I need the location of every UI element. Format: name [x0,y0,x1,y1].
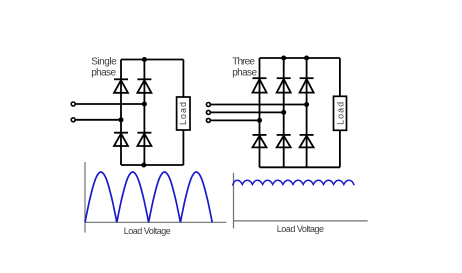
diode D5 [253,77,267,79]
axis left graph x-axis [85,221,226,223]
wire three-phase bottom rail [260,166,340,168]
terminal three-phase input C [206,118,210,122]
wire single-phase top rail [121,59,183,61]
junction single-phase top [142,57,147,62]
wire single-phase AC input line 2 [76,119,121,121]
junction single-phase right mid [142,102,147,107]
svg-text:Load: Load [178,102,188,125]
svg-text:Load Voltage: Load Voltage [277,224,324,234]
diode D6 [277,77,291,79]
wire three-phase leg 3 [306,58,308,167]
wire single-phase AC input line 1 [76,103,145,105]
wire single-phase bottom rail [121,164,183,166]
svg-text:Three: Three [232,57,255,68]
svg-text:Load: Load [336,102,346,125]
diode D2 [137,78,151,80]
diode D10 [300,134,314,136]
svg-text:phase: phase [91,68,116,79]
wire three-phase leg 1 [259,58,261,167]
load RL2 (three phase) [334,96,347,130]
axis left graph y-axis [84,162,86,233]
junction three-phase input C to leg1 [257,118,262,123]
junction single-phase bottom [141,163,146,168]
diode D9 [277,134,291,136]
wire three-phase input C [211,119,260,121]
terminal single-phase input 1 [71,102,75,106]
diode D8 [253,134,267,136]
svg-text:phase: phase [232,68,257,79]
svg-text:Load Voltage: Load Voltage [124,226,171,236]
junction single-phase left mid [119,117,124,122]
wire single-phase load bottom lead [182,130,184,165]
waveform single-phase rectified output [85,172,212,222]
diode D7 [300,77,314,79]
junction three-phase input A to leg3 [304,102,309,107]
svg-text:Single: Single [91,57,117,68]
terminal three-phase input A [206,103,210,107]
diode D1 [114,78,128,80]
wire single-phase right leg [143,60,145,166]
wire single-phase left leg [120,60,122,166]
wire three-phase load top lead [339,58,341,96]
waveform three-phase rectified output [233,180,355,185]
wire three-phase load bottom lead [339,130,341,167]
load RL1 (single phase) [177,97,190,130]
junction three-phase top leg2 [281,56,286,61]
axis right graph x-axis [234,220,368,222]
axis right graph y-axis [233,173,235,229]
wire three-phase top rail [260,57,340,59]
junction three-phase top leg3 [304,56,309,61]
wire three-phase input A [211,104,307,106]
junction three-phase input B to leg2 [281,110,286,115]
diode D3 [114,132,128,134]
terminal three-phase input B [206,110,210,114]
diode D4 [137,132,151,134]
terminal single-phase input 2 [71,118,75,122]
wire single-phase load top lead [182,60,184,98]
wire three-phase input B [211,111,284,113]
wire three-phase leg 2 [283,58,285,167]
